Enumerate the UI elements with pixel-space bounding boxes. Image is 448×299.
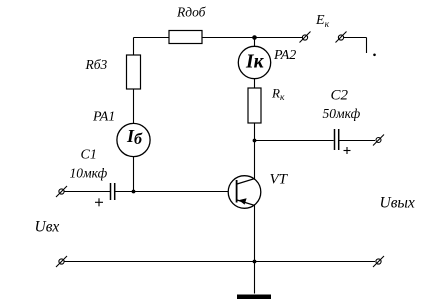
svg-text:C2: C2 <box>331 88 349 104</box>
emitter arrowhead <box>239 198 247 204</box>
node collector junction <box>253 139 257 143</box>
wire supply return stub <box>366 38 368 54</box>
svg-text:Uвых: Uвых <box>380 195 415 212</box>
svg-text:VT: VT <box>270 172 289 188</box>
terminal clamp right of Ек gap <box>338 35 343 40</box>
wire C1 to base <box>115 191 237 193</box>
wire ammeter to Rк <box>254 79 256 89</box>
svg-text:PA1: PA1 <box>92 110 115 125</box>
resistor Rк <box>248 88 261 123</box>
wire left branch between resistor and ammeter <box>133 89 135 124</box>
svg-text:Rб3: Rб3 <box>85 57 108 72</box>
svg-text:Rдоб: Rдоб <box>176 5 207 20</box>
node base junction <box>132 190 136 194</box>
terminal bottom right <box>376 259 381 264</box>
svg-text:C1: C1 <box>81 148 97 163</box>
polarity plus C2 <box>344 150 351 152</box>
terminal bottom left <box>59 259 64 264</box>
wire C2 to output terminal <box>339 140 375 142</box>
node stub end dot <box>373 54 376 57</box>
wire top rail middle segment <box>202 37 303 39</box>
resistor Rдоб <box>169 31 202 44</box>
wire left branch below ammeter <box>133 157 135 192</box>
wire top rail left segment <box>134 37 170 39</box>
wire left branch top <box>133 38 135 56</box>
wire bottom rail <box>64 261 375 263</box>
node emitter-rail junction <box>253 260 257 264</box>
terminal clamp left of Ек gap <box>302 35 307 40</box>
emitter lead diagonal <box>237 200 255 206</box>
svg-text:Uвх: Uвх <box>35 219 60 236</box>
wire Rк to collector <box>254 123 256 179</box>
capacitor C1 <box>110 183 112 200</box>
base bar <box>236 180 238 203</box>
svg-text:10мкф: 10мкф <box>70 166 108 181</box>
svg-text:PA2: PA2 <box>273 48 296 63</box>
polarity plus C1 <box>95 201 103 203</box>
wire collector to C2 <box>255 140 334 142</box>
node junction top (collector branch tap) <box>252 35 257 40</box>
terminal output top <box>376 138 381 143</box>
wire emitter down <box>254 206 256 294</box>
ground <box>237 295 271 299</box>
svg-text:Iк: Iк <box>245 52 265 73</box>
ammeter PA1 (Iб) <box>117 123 150 156</box>
transistor VT <box>228 176 261 209</box>
svg-text:50мкф: 50мкф <box>323 106 361 121</box>
terminal input top <box>59 189 64 194</box>
capacitor C2 <box>334 129 336 150</box>
ammeter PA2 (Iк) <box>254 39 256 47</box>
wire input to C1 <box>64 191 110 193</box>
resistor Rб3 <box>127 55 141 89</box>
wire top rail right segment <box>344 37 367 39</box>
collector lead diagonal <box>237 179 255 185</box>
